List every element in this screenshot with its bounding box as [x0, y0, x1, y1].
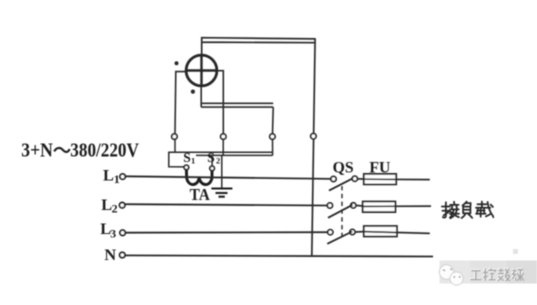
wire QS2 to FU2 — [356, 204, 363, 207]
svg-text:3+N: 3+N — [21, 141, 53, 162]
switch QS pole 1 blade — [329, 178, 353, 190]
svg-text:S: S — [207, 150, 215, 165]
watermark text 工控教练 — [470, 268, 523, 281]
wire A: upper CT link — [169, 152, 273, 167]
wire B: lower CT link — [196, 154, 273, 156]
svg-text:FU: FU — [369, 159, 390, 176]
watermark band — [440, 261, 537, 284]
wire meter left to terminal 1 — [175, 72, 186, 134]
svg-text:N: N — [104, 245, 116, 264]
stub S2 junction to wire B — [211, 155, 213, 166]
svg-text:1: 1 — [191, 156, 195, 166]
polarity dot upper left — [175, 61, 179, 65]
svg-text:2: 2 — [216, 156, 220, 166]
wire middle pair from meter bottom to terminal 3 — [201, 86, 273, 134]
fuse FU1 — [364, 174, 396, 185]
source terminal L2 — [120, 203, 125, 208]
label 接负载 (connect load) hand-drawn strokes — [442, 202, 493, 219]
junction S1 — [184, 165, 189, 170]
terminal 2 — [221, 134, 226, 139]
source terminal L3 — [120, 230, 125, 235]
wire meter right to terminal 2 — [217, 71, 223, 134]
CT TA secondary loops — [186, 170, 212, 185]
terminal 3 — [270, 134, 275, 139]
watermark logo circles — [439, 265, 453, 279]
svg-text:3: 3 — [110, 227, 116, 241]
QS linkage dashed — [341, 186, 343, 241]
svg-text:2: 2 — [112, 202, 118, 216]
switch QS pole 3 blade — [327, 232, 352, 244]
switch QS pole 2 contacts — [327, 203, 332, 208]
junction S2 — [210, 166, 215, 171]
terminal 4 — [311, 134, 316, 139]
fuse FU1 wire through — [364, 178, 430, 180]
svg-text:QS: QS — [333, 160, 354, 177]
line L3 — [126, 231, 328, 234]
watermark small mark above — [513, 249, 518, 254]
switch QS pole 3 contacts — [328, 230, 333, 235]
fuse FU2 — [363, 202, 396, 213]
meter U1 (kWh meter circle) — [186, 55, 217, 86]
meter cross coils — [186, 55, 217, 86]
ground wire — [221, 155, 223, 187]
source terminal N — [120, 252, 125, 257]
svg-text:380/220V: 380/220V — [70, 141, 139, 162]
stub below terminal 3 — [272, 139, 274, 156]
fuse FU2 wire through — [363, 205, 431, 207]
ground symbol — [211, 189, 232, 197]
line L2 — [125, 204, 327, 205]
stub below terminal 2 — [222, 139, 224, 156]
main vertical wire from top line down to N — [312, 38, 315, 256]
stub below terminal 1 — [174, 139, 176, 153]
svg-text:L: L — [103, 165, 114, 184]
line N — [125, 255, 433, 256]
svg-text:S: S — [183, 150, 191, 165]
svg-text:TA: TA — [190, 185, 210, 204]
wire top pair from meter to main vertical — [202, 38, 315, 56]
wire QS1 to FU1 — [357, 178, 364, 180]
switch QS pole 1 contacts — [331, 176, 336, 181]
switch QS pole 2 blade — [328, 205, 353, 218]
terminal 1 — [172, 134, 177, 139]
svg-text:1: 1 — [114, 172, 120, 186]
fuse FU3 wire through — [364, 232, 430, 234]
line L1 — [126, 176, 331, 179]
fuse FU3 — [364, 226, 397, 237]
source terminal L1 — [120, 174, 125, 179]
wire QS3 to FU3 — [355, 231, 364, 233]
polarity dot lower — [191, 90, 195, 94]
